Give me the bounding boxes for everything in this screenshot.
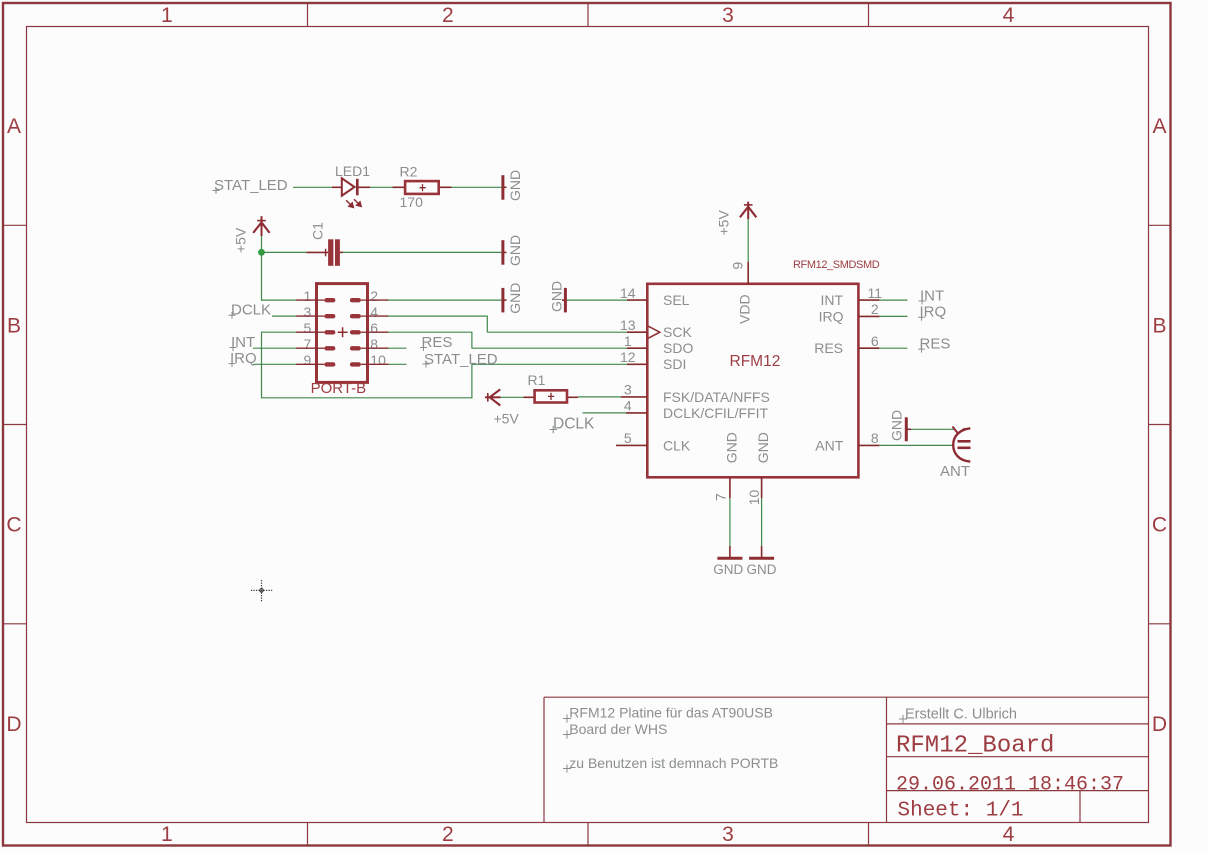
resistor R1 xyxy=(524,372,579,403)
svg-text:GND: GND xyxy=(549,281,565,312)
wire junction to C1 xyxy=(262,251,307,253)
svg-text:11: 11 xyxy=(868,285,883,301)
svg-text:6: 6 xyxy=(871,333,879,349)
svg-text:2: 2 xyxy=(442,823,454,846)
svg-text:3: 3 xyxy=(722,823,734,846)
wire R2 to GND xyxy=(452,186,502,188)
pin8 stub + net label RES xyxy=(368,334,453,351)
ground GND (pin14 SEL) xyxy=(549,281,628,313)
svg-text:LED1: LED1 xyxy=(335,163,370,179)
IC U1 RFM12 xyxy=(616,259,882,505)
svg-text:RES: RES xyxy=(422,334,453,351)
svg-text:8: 8 xyxy=(370,336,378,352)
supply +5V (VDD) xyxy=(716,202,757,236)
svg-text:GND: GND xyxy=(889,410,905,441)
wire LED1 to R2 xyxy=(370,186,393,188)
title block description text xyxy=(563,705,778,773)
svg-text:SDI: SDI xyxy=(663,356,686,372)
svg-text:4: 4 xyxy=(1003,4,1015,27)
svg-text:IRQ: IRQ xyxy=(230,350,257,367)
svg-text:Board der WHS: Board der WHS xyxy=(569,721,667,737)
svg-text:13: 13 xyxy=(620,317,636,333)
svg-text:6: 6 xyxy=(370,320,378,336)
svg-text:B: B xyxy=(1152,314,1166,337)
svg-text:RFM12 Platine für das AT90USB: RFM12 Platine für das AT90USB xyxy=(569,705,773,721)
svg-text:29.06.2011 18:46:37: 29.06.2011 18:46:37 xyxy=(896,773,1124,796)
svg-text:D: D xyxy=(6,713,21,736)
svg-text:Erstellt C. Ulbrich: Erstellt C. Ulbrich xyxy=(905,707,1017,723)
pin 13 SCK xyxy=(620,317,692,340)
svg-text:3: 3 xyxy=(624,382,632,398)
title block author xyxy=(899,707,1017,724)
net label STAT_LED xyxy=(213,177,288,194)
svg-text:GND: GND xyxy=(747,562,777,577)
svg-text:8: 8 xyxy=(871,430,879,446)
svg-text:1: 1 xyxy=(161,823,173,846)
svg-text:Sheet: 1/1: Sheet: 1/1 xyxy=(898,800,1024,823)
wire RFM12 ANT to antenna xyxy=(879,444,954,446)
pin 6 RES xyxy=(814,333,879,356)
svg-text:IRQ: IRQ xyxy=(819,308,844,324)
pin 2 IRQ xyxy=(819,301,880,324)
pin 1 SDO xyxy=(624,333,694,356)
svg-text:2: 2 xyxy=(442,4,454,27)
wire R1 to RFM12 FSK xyxy=(578,396,621,398)
svg-text:C1: C1 xyxy=(310,222,326,240)
svg-text:STAT_LED: STAT_LED xyxy=(214,177,288,194)
svg-text:CLK: CLK xyxy=(663,437,691,453)
ground GND (antenna) xyxy=(889,410,912,441)
capacitor C1 xyxy=(307,222,344,266)
svg-text:ANT: ANT xyxy=(815,437,843,453)
svg-text:7: 7 xyxy=(304,336,312,352)
svg-text:GND: GND xyxy=(713,562,743,577)
svg-text:ANT: ANT xyxy=(940,463,970,480)
pin 7 GND xyxy=(712,432,739,501)
resistor R2 value 170 xyxy=(393,164,452,211)
svg-text:SEL: SEL xyxy=(663,292,690,308)
svg-text:INT: INT xyxy=(920,287,944,304)
supply +5V (R1, pointing left) xyxy=(485,389,519,426)
svg-text:A: A xyxy=(1152,115,1166,138)
svg-text:RES: RES xyxy=(920,335,951,352)
svg-text:C: C xyxy=(1152,514,1167,537)
wire pin6 to RFM12 SDO xyxy=(368,332,628,348)
net label INT + wire pin7 xyxy=(230,334,317,351)
wire +5V down to junction xyxy=(261,236,263,252)
wire RES (right) + net label RES xyxy=(879,335,950,352)
wire INT (right) + net label INT xyxy=(879,287,944,304)
supply +5V (left) xyxy=(233,216,270,253)
wire C1 to GND xyxy=(343,251,502,253)
node junction +5V xyxy=(258,249,265,256)
svg-text:SCK: SCK xyxy=(663,324,692,340)
wire STAT_LED to LED1 xyxy=(293,186,332,188)
wire pin7 down to GND xyxy=(729,498,731,546)
svg-text:9: 9 xyxy=(729,262,745,270)
wire pin1 red stub xyxy=(296,299,317,301)
svg-text:12: 12 xyxy=(620,349,636,365)
svg-text:INT: INT xyxy=(231,334,255,351)
svg-text:C: C xyxy=(6,514,21,537)
svg-text:3: 3 xyxy=(304,304,312,320)
svg-text:IRQ: IRQ xyxy=(920,304,947,321)
svg-text:+5V: +5V xyxy=(494,411,520,427)
svg-text:2: 2 xyxy=(370,288,378,304)
svg-text:SDO: SDO xyxy=(663,340,693,356)
pin 4 DCLK/CFIL/FFIT xyxy=(624,398,769,421)
svg-text:4: 4 xyxy=(1003,823,1015,846)
svg-text:zu Benutzen ist demnach PORTB: zu Benutzen ist demnach PORTB xyxy=(569,755,778,771)
svg-text:1: 1 xyxy=(304,288,312,304)
pin10 stub + net label STAT_LED xyxy=(368,351,498,368)
pin 14 SEL xyxy=(620,285,690,308)
wire GND to antenna top xyxy=(911,428,955,430)
wire junction down to PORT-B pin 1 xyxy=(262,252,297,300)
svg-text:DCLK: DCLK xyxy=(231,302,271,319)
LED LED1 xyxy=(332,163,370,208)
svg-text:PORT-B: PORT-B xyxy=(311,380,367,397)
svg-text:R2: R2 xyxy=(400,164,418,180)
svg-text:5: 5 xyxy=(624,430,632,446)
svg-text:+5V: +5V xyxy=(233,227,249,253)
wire pin5 U-route to RFM12 SDI xyxy=(262,332,628,398)
svg-text:GND: GND xyxy=(507,235,523,266)
svg-text:+5V: +5V xyxy=(716,210,732,236)
svg-text:5: 5 xyxy=(304,320,312,336)
svg-text:R1: R1 xyxy=(528,372,546,388)
ground GND (C1 row) xyxy=(502,235,524,266)
svg-text:D: D xyxy=(1152,713,1167,736)
net label IRQ + wire pin9 xyxy=(229,350,317,367)
svg-text:GND: GND xyxy=(507,170,523,201)
svg-text:A: A xyxy=(7,115,21,138)
pin 10 GND xyxy=(746,432,771,505)
net label DCLK (bottom) xyxy=(550,416,596,434)
svg-text:2: 2 xyxy=(871,301,879,317)
svg-text:RFM12_Board: RFM12_Board xyxy=(896,733,1054,760)
svg-text:7: 7 xyxy=(712,493,728,501)
antenna ANT xyxy=(940,427,971,481)
ground GND (pin2) xyxy=(502,283,524,314)
wire pin2 to GND xyxy=(368,299,502,301)
wire +5V to VDD xyxy=(747,219,749,262)
svg-text:10: 10 xyxy=(370,352,386,368)
svg-text:DCLK: DCLK xyxy=(553,416,595,433)
svg-text:4: 4 xyxy=(370,304,378,320)
pin 9 VDD xyxy=(729,262,752,325)
svg-text:GND: GND xyxy=(724,432,740,463)
svg-text:GND: GND xyxy=(507,283,523,314)
svg-text:170: 170 xyxy=(400,194,424,210)
ground GND (pin10) xyxy=(747,546,777,577)
svg-text:3: 3 xyxy=(722,4,734,27)
ground GND (pin7) xyxy=(713,546,743,577)
connector PORT-B xyxy=(304,284,387,398)
pin 5 CLK xyxy=(616,430,691,453)
wire IRQ (right) + net label IRQ xyxy=(879,304,946,321)
svg-text:10: 10 xyxy=(746,490,762,506)
svg-text:1: 1 xyxy=(624,333,632,349)
svg-text:RES: RES xyxy=(814,340,843,356)
wire +5V to R1 xyxy=(501,396,524,398)
net label DCLK + wire pin3 xyxy=(229,302,317,319)
svg-text:9: 9 xyxy=(304,352,312,368)
pin 11 INT xyxy=(820,285,882,308)
svg-text:DCLK/CFIL/FFIT: DCLK/CFIL/FFIT xyxy=(663,405,768,421)
pin 3 FSK/DATA/NFFS xyxy=(621,382,770,405)
svg-text:VDD: VDD xyxy=(737,294,753,324)
svg-text:1: 1 xyxy=(161,4,173,27)
wire pin10 down to GND xyxy=(761,498,763,546)
wire DCLK to RFM12 DCLK/CFIL xyxy=(583,412,626,414)
title block frame xyxy=(544,697,1149,822)
svg-text:GND: GND xyxy=(755,432,771,463)
svg-text:B: B xyxy=(7,314,21,337)
svg-text:RFM12_SMDSMD: RFM12_SMDSMD xyxy=(793,259,880,271)
svg-text:RFM12: RFM12 xyxy=(730,353,781,370)
ground GND (LED row) xyxy=(502,170,524,201)
svg-text:STAT_LED: STAT_LED xyxy=(424,351,498,368)
svg-text:14: 14 xyxy=(620,285,636,301)
origin cross marker xyxy=(251,580,274,603)
svg-text:4: 4 xyxy=(624,398,632,414)
svg-text:FSK/DATA/NFFS: FSK/DATA/NFFS xyxy=(663,389,770,405)
wire pin4 to RFM12 SCK xyxy=(368,316,628,332)
pin 8 ANT xyxy=(815,430,879,453)
svg-text:INT: INT xyxy=(820,292,843,308)
pin 12 SDI xyxy=(620,349,686,372)
